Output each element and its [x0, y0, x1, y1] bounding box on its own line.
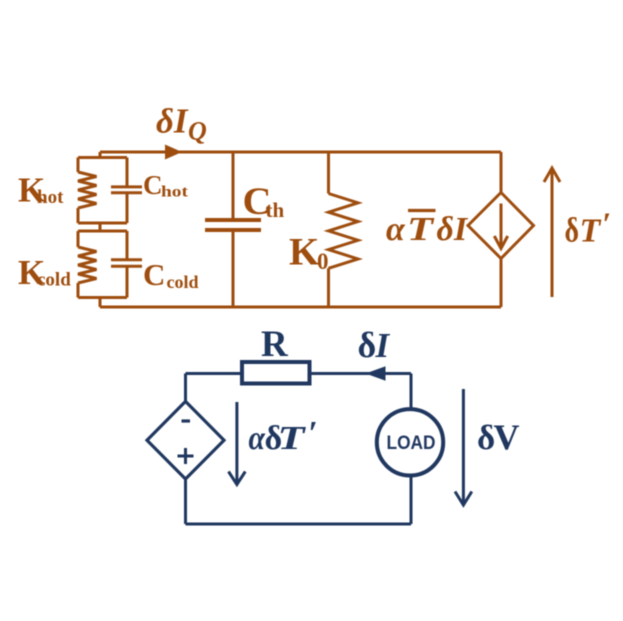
svg-text:δV: δV [477, 417, 520, 457]
svg-text:cold: cold [167, 272, 199, 292]
svg-text:C: C [143, 257, 165, 292]
svg-text:0: 0 [317, 249, 329, 274]
svg-text:T: T [407, 211, 435, 248]
svg-text:C: C [143, 170, 163, 200]
svg-text:Q: Q [188, 117, 207, 146]
svg-text:δI: δI [358, 325, 391, 365]
svg-text:δI: δI [437, 211, 469, 248]
svg-text:cold: cold [37, 270, 71, 291]
svg-text:hot: hot [37, 187, 64, 208]
svg-text:hot: hot [161, 184, 189, 201]
svg-text:δT′: δT′ [565, 206, 612, 250]
svg-text:R: R [261, 324, 289, 365]
svg-text:δI: δI [156, 102, 189, 141]
svg-text:α: α [386, 211, 406, 248]
svg-text:th: th [266, 198, 285, 222]
svg-text:αδT′: αδT′ [249, 415, 318, 457]
svg-text:K: K [289, 231, 320, 274]
svg-text:LOAD: LOAD [387, 432, 436, 454]
